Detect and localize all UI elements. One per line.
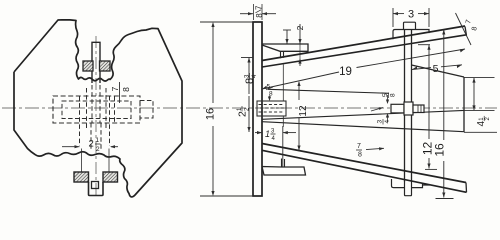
dim 3 over cotter head <box>392 8 394 27</box>
bottom arm top edge <box>262 144 466 183</box>
svg-text:3: 3 <box>377 120 384 124</box>
cotter (vertical bar) <box>404 30 406 183</box>
svg-text:7: 7 <box>254 5 263 10</box>
dashed hidden verticals <box>79 96 81 146</box>
label 5/8 stud <box>266 84 273 98</box>
svg-text:8: 8 <box>390 93 397 97</box>
dim 12 right <box>418 44 430 46</box>
bottom boss <box>74 172 89 182</box>
stud near plate on centerline <box>257 101 286 116</box>
leader to bolt <box>371 108 383 112</box>
dims 8 3/4 and 2 1/2 near plate <box>241 57 253 59</box>
dim 2 1/2 left view <box>81 149 83 173</box>
svg-text:8: 8 <box>255 13 264 18</box>
dim 4 1/2 right <box>464 77 495 79</box>
svg-text:12: 12 <box>298 105 309 117</box>
svg-text:16: 16 <box>433 143 447 157</box>
dim 12 left <box>298 82 300 100</box>
dim 1 3/4 <box>282 126 284 167</box>
dim 5 top right <box>412 68 431 70</box>
7/8 at arm end (rotated, with ticks) <box>456 13 472 45</box>
central jaw body: top edge <box>412 65 465 77</box>
central dashed inner rect <box>62 101 131 119</box>
svg-text:2: 2 <box>89 139 94 150</box>
dim 16 right <box>443 30 445 141</box>
top arm bottom edge <box>262 35 467 67</box>
bottom arm end face <box>465 183 468 193</box>
bolt through jaw <box>391 104 404 113</box>
vertical centerline left view <box>95 36 97 196</box>
label 7/8 bottom (cotter) <box>356 143 362 159</box>
top rib flange <box>262 44 308 51</box>
label 7/8 left view (rotated, straddling line) <box>119 82 121 103</box>
dim 16 overall left <box>200 21 253 23</box>
horizontal centerline <box>2 107 497 109</box>
dim 7/8 plate thickness top <box>240 13 253 15</box>
svg-text:5: 5 <box>382 93 389 97</box>
svg-text:8: 8 <box>358 152 362 159</box>
svg-text:1: 1 <box>96 137 100 144</box>
rod edge long line from plate <box>262 122 464 132</box>
label 5/8 bolt dia <box>387 95 389 101</box>
dim 19 along top arm <box>262 72 339 89</box>
upper taper line <box>268 89 389 93</box>
joint line inside jaw <box>262 110 464 119</box>
top arm top edge <box>262 26 465 61</box>
central dashed outer rect <box>53 96 140 123</box>
hatched square left of stem <box>83 61 93 71</box>
main plate <box>253 22 262 196</box>
svg-text:2: 2 <box>295 25 305 30</box>
svg-text:8: 8 <box>121 87 131 92</box>
svg-text:7: 7 <box>110 86 120 91</box>
svg-text:19: 19 <box>339 66 352 78</box>
dashed tongue right <box>140 101 153 119</box>
svg-text:2: 2 <box>96 146 100 153</box>
svg-text:4: 4 <box>384 120 391 124</box>
pad on top arm <box>393 30 429 40</box>
jaw right face <box>463 77 465 132</box>
bottom arm bottom edge <box>262 150 467 192</box>
left view jagged outline upper <box>14 20 182 197</box>
cotter head top <box>404 22 416 29</box>
cotter bottom end <box>405 182 412 196</box>
label 3/4 <box>377 119 392 125</box>
top boss stem <box>92 42 100 83</box>
svg-text:7: 7 <box>357 143 361 150</box>
svg-text:5: 5 <box>433 63 439 75</box>
pad under bottom arm <box>392 179 431 188</box>
svg-text:16: 16 <box>205 108 217 120</box>
svg-text:1: 1 <box>265 129 270 139</box>
bottom rib flange <box>262 167 306 176</box>
svg-text:3: 3 <box>408 9 414 21</box>
hatched square right of stem <box>100 61 111 71</box>
dim 2 top rib <box>299 24 301 44</box>
top arm end face <box>465 27 467 36</box>
